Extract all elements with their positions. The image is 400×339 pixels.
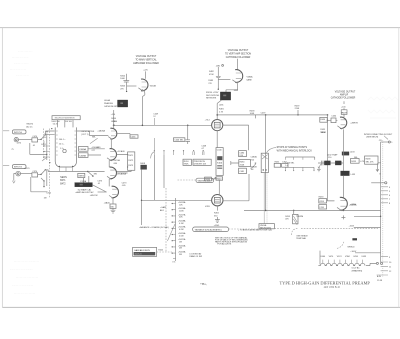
wire screen dropper vertical: [265, 115, 267, 210]
switch SW432 variable box: [193, 227, 229, 232]
svg-text:DIVIDER 10K: DIVIDER 10K: [194, 164, 207, 166]
wire V433 to bus: [342, 209, 344, 212]
wire wafer rods down: [263, 173, 265, 224]
svg-text:1%: 1%: [172, 261, 175, 263]
svg-text:xx x xx xx x xx x xx x: xx x xx xx x xx x xx x xx: [14, 293, 35, 295]
svg-text:+AMPL ADJUST MV: +AMPL ADJUST MV: [75, 191, 94, 194]
svg-text:B472: B472: [60, 184, 66, 186]
wire R433 to tube: [327, 200, 335, 202]
capacitor C470: [32, 136, 38, 147]
svg-text:2-13 +5: 2-13 +5: [135, 254, 143, 256]
node attenuator inner label: [81, 130, 94, 136]
wire V464A to V474: [110, 139, 112, 149]
node +225V feed V464B: [143, 70, 148, 79]
node sel value box: [259, 224, 274, 230]
resistor ladder values: [178, 201, 186, 256]
svg-text:xx x x xx xx x x xx: xx x x xx xx x x xx: [10, 69, 26, 71]
node +225V stub left: [350, 204, 381, 217]
attenuator box A405 tall: [216, 148, 223, 176]
wire L464 feed down to bus: [113, 110, 115, 125]
svg-text:xx x xx x xx x xxx xx x: xx x xx x xx x xxx xx x xx: [16, 277, 38, 279]
node junction dots on bus: [113, 114, 329, 126]
inductor L433 dark top: [342, 152, 355, 156]
page left edge: [1, 28, 3, 308]
ground V384 cathode: [111, 208, 116, 213]
node +100V stub: [350, 251, 380, 253]
resistor R494: [214, 213, 220, 218]
svg-text:CATHODE FOLLOWER: CATHODE FOLLOWER: [226, 56, 251, 59]
wire V464A plate right: [116, 132, 130, 134]
wire dashed link right: [274, 228, 378, 230]
svg-text:AMPLIF: AMPLIF: [340, 94, 349, 97]
resistor R440A lower box: [216, 177, 223, 181]
switch SW405 MILLIVOLTS/DIVISION header: [52, 116, 80, 120]
svg-text:NETWORK: NETWORK: [206, 97, 217, 99]
svg-text:+2BH7B: +2BH7B: [350, 122, 358, 124]
svg-text:x xx xx x x xxx x: x xx xx x x xxx x: [14, 63, 28, 65]
wire grid to tube: [218, 78, 230, 80]
resistor R480 column: [239, 160, 251, 167]
svg-text:STOPS AT NORMAL POSITS: STOPS AT NORMAL POSITS: [277, 146, 308, 149]
svg-text:+BALANCE +COARSE (DC BAL): +BALANCE +COARSE (DC BAL): [139, 226, 169, 229]
svg-text:5M: 5M: [179, 254, 182, 256]
node attenuator left contacts: [41, 128, 52, 163]
resistor R437 plate load: [341, 110, 347, 115]
svg-text:WITH MECHANICAL INTERLOCK: WITH MECHANICAL INTERLOCK: [277, 150, 313, 153]
svg-text:+225V: +225V: [350, 204, 357, 206]
thermistor RT495: [285, 210, 303, 225]
wire V374 to V384: [108, 179, 110, 187]
node bleedthrough faint top-right: [368, 97, 398, 118]
inductor L432 dark: [335, 161, 341, 165]
svg-text:NEON: NEON: [60, 177, 67, 179]
node AC DC GND switch A: [26, 124, 47, 160]
node J481 pin: [216, 65, 224, 68]
ground interconnect arrow: [376, 167, 379, 171]
svg-text:TO VERT AMP SECTION: TO VERT AMP SECTION: [225, 52, 251, 55]
capacitor C480 column: [239, 151, 247, 158]
capacitor C432: [321, 161, 323, 166]
svg-text:xx x xx x xx xx x x xx x: xx x xx x xx xx x x xx xx x xx: [14, 261, 39, 263]
wire V493 cathode right: [223, 174, 249, 201]
svg-text:100K: 100K: [179, 211, 184, 213]
capacitor C466: [130, 133, 138, 138]
node GAIN ADJ label: [160, 206, 167, 212]
svg-text:TO MAIN VERTICAL: TO MAIN VERTICAL: [135, 58, 157, 61]
svg-text:INPUT B: INPUT B: [14, 167, 23, 169]
svg-text:+C370: +C370: [24, 168, 31, 170]
wire V464A top to bus: [113, 125, 115, 128]
svg-text:CATHODE INTERF: CATHODE INTERF: [104, 105, 122, 108]
wire V493 down: [216, 206, 218, 211]
svg-text:SW: SW: [94, 173, 97, 175]
tube V484A cathode follower: [232, 70, 253, 84]
node left labels under L464: [111, 114, 117, 123]
svg-text:(HEATERS): (HEATERS): [352, 270, 363, 273]
wire ladder wiper arm: [167, 224, 175, 241]
node wafer contact labels: [251, 156, 258, 172]
svg-text:+GAIN: +GAIN: [160, 206, 167, 209]
svg-text:6.3-V AC: 6.3-V AC: [352, 267, 361, 270]
svg-text:R474A: R474A: [114, 159, 121, 162]
resistor R461 labels: [274, 162, 280, 168]
wire V384 grid stub: [98, 191, 107, 193]
node GANGED SW label: [178, 177, 217, 182]
node R405A labels: [91, 146, 99, 152]
svg-text:50 20: 50 20: [53, 124, 59, 126]
tube V493 output amp: [205, 195, 223, 208]
node V434 upper label: [321, 132, 327, 134]
resistor R408 dark: [140, 163, 146, 169]
svg-text:1MEG: 1MEG: [78, 176, 84, 178]
ground V493: [214, 217, 220, 227]
svg-text:C405A: C405A: [79, 148, 86, 151]
wire off-page stub B: [3, 165, 9, 167]
node comb mid labels: [285, 163, 295, 168]
node input B grid components labels: [60, 177, 67, 186]
svg-text:MILLIVOLTS/DIVISION: MILLIVOLTS/DIVISION: [55, 118, 75, 120]
wire grid line to V493: [142, 199, 212, 201]
svg-text:990K: 990K: [184, 164, 189, 166]
resistor R434: [320, 117, 327, 134]
tube V464B cathode follower: [138, 79, 156, 91]
svg-text:R480B: R480B: [251, 166, 258, 168]
wire switch B to grid bus: [45, 170, 131, 172]
wire ganged coupling dashed link: [49, 129, 51, 199]
resistor R482 grid column: [208, 67, 220, 90]
tube V474 amplifier: [107, 149, 126, 165]
node bleedthrough faint bottom-left: [10, 261, 39, 295]
node callout stops-at-normal: [266, 146, 312, 153]
wire header drops: [57, 120, 73, 128]
wire variable dashed link: [229, 228, 259, 230]
node grid switch contact: [87, 171, 97, 177]
wire comb feeders: [154, 155, 164, 200]
svg-text:SW470: SW470: [26, 124, 33, 126]
node INPUT A label: [12, 130, 26, 134]
node -150V stub left: [349, 225, 381, 227]
node shielded lead curve: [337, 241, 355, 248]
node atten feed label: [205, 177, 216, 181]
resistor R462 labels: [282, 162, 288, 168]
svg-text:2.7K: 2.7K: [219, 111, 224, 113]
node AW initials: [377, 275, 383, 282]
svg-text:x xx xx x xx xx: x xx xx x xx xx: [16, 75, 29, 77]
wire J370 to C370: [21, 172, 32, 174]
wire output stem: [237, 59, 239, 70]
node +225V stub label: [250, 110, 256, 118]
svg-text:V484A: V484A: [247, 76, 254, 79]
switch SW460 wafer: [261, 153, 268, 172]
node rotary bottom contacts: [59, 166, 73, 167]
svg-text:+MV/CM: +MV/CM: [90, 195, 98, 197]
node temp bal dashed arc: [292, 228, 309, 240]
svg-text:R437: R437: [342, 112, 348, 114]
tube V433A output CF: [337, 197, 357, 211]
transformer T480 shielded peaking coil: [206, 92, 231, 100]
svg-text:0.2M: 0.2M: [179, 229, 184, 231]
node cathode wire cluster labels: [327, 153, 338, 159]
wire grid to tube: [127, 85, 137, 87]
svg-text:A.W.: A.W.: [377, 275, 382, 278]
capacitor C406 trimmer on bus: [174, 138, 185, 142]
potentiometer GAIN ADJ box: [133, 247, 157, 256]
tube V464 pentode: [205, 115, 223, 131]
switch comb right rail upper: [285, 157, 314, 160]
svg-text:+73.4: +73.4: [205, 120, 211, 122]
node comp pointer: [90, 136, 98, 143]
resistor network box R471-R473: [128, 152, 135, 170]
capacitor C405B comp lower: [78, 153, 88, 158]
wire atten box to V493: [218, 180, 220, 194]
wire off-page stub A: [3, 130, 9, 132]
svg-text:VOLTAGE OUTPUT: VOLTAGE OUTPUT: [228, 49, 249, 52]
node C373 label: [97, 180, 103, 185]
svg-text:TYPE D HIGH-GAIN DIFFERENTIAL: TYPE D HIGH-GAIN DIFFERENTIAL PREAMP: [280, 281, 371, 286]
svg-text:THERM: THERM: [296, 216, 303, 218]
inductor L431 dark: [324, 161, 330, 165]
resistor R371 shielded dark: [75, 180, 98, 197]
node adjust arrow: [251, 163, 256, 169]
resistor R370 1MEG: [78, 173, 85, 177]
wire coupling gang dashed short: [43, 129, 45, 161]
svg-text:x x xx x xxx xx x: x x xx x xxx xx x: [18, 51, 32, 53]
switch comb right rail lower: [285, 167, 320, 171]
page top edge: [0, 27, 400, 29]
wire main plate bus left: [114, 124, 212, 126]
capacitor C370: [32, 171, 38, 177]
svg-text:200 100: 200 100: [65, 121, 73, 123]
testpoint TP433 dark: [341, 171, 356, 176]
wire V474 to V374: [108, 160, 110, 167]
capacitor C481 column: [239, 168, 247, 173]
wire atten output to grid: [77, 131, 109, 136]
svg-text:1M: 1M: [179, 242, 182, 244]
wire switch A to attenuator: [45, 131, 54, 135]
node B coupling tiny labels: [44, 192, 52, 199]
resistor R464 grid column: [120, 74, 129, 92]
wire V434 cathode chain: [342, 129, 344, 197]
wire R437 to V434: [343, 101, 345, 117]
svg-text:10:1 +: 10:1 +: [59, 144, 65, 146]
wire comp to V474 grid: [88, 149, 105, 155]
wire interconnect main line: [380, 142, 382, 262]
svg-text:-150V: -150V: [349, 225, 355, 227]
resistor R411 divider: [193, 159, 211, 165]
svg-text:1M: 1M: [44, 197, 47, 199]
svg-text:6AN8: 6AN8: [247, 79, 253, 82]
svg-text:470K: 470K: [209, 74, 214, 76]
node VOLTAGE OUTPUT TO VERT PLATES label: [133, 55, 159, 65]
wire R408 down: [141, 169, 143, 225]
wire V484A plate: [226, 84, 238, 92]
wire rotary bottom feeders: [59, 167, 72, 172]
node INPUT B label: [12, 165, 26, 169]
wire plate vertical to V433: [327, 115, 329, 199]
svg-text:INPUT A: INPUT A: [14, 131, 22, 134]
node lower pin stubs: [377, 257, 393, 275]
svg-text:VARIABLE (UNCALIBRATED): VARIABLE (UNCALIBRATED): [195, 229, 222, 232]
wire R434 to tube grid: [327, 119, 337, 121]
tube V464A input CF: [97, 121, 118, 139]
svg-text:ONE SPACE: ONE SPACE: [296, 234, 308, 237]
node pin 1 stub: [381, 141, 394, 144]
node dark tick: [352, 238, 357, 240]
wire cal to V384 grid: [92, 185, 106, 192]
wire V384 cathode down: [112, 198, 114, 204]
node heaters caption: [352, 267, 363, 273]
svg-text:V464B: V464B: [150, 85, 157, 87]
svg-text:GAIN ADJ R425: GAIN ADJ R425: [134, 249, 151, 252]
node heater labels row: [320, 256, 367, 258]
wire V464B plate down: [142, 89, 145, 125]
svg-text:2.2M: 2.2M: [319, 207, 324, 209]
svg-text:C406 SEL: C406 SEL: [174, 140, 184, 142]
node looking-at note: [189, 252, 202, 258]
svg-text:FOR ADJUSTS: FOR ADJUSTS: [217, 243, 231, 246]
node pin row plate: [371, 174, 387, 184]
page right edge: [398, 28, 400, 308]
svg-text:xx x xxx xx x xx xx: xx x xxx xx x xx xx: [12, 57, 28, 59]
node interconnecting socket label: [364, 134, 393, 142]
node cross mark below V433: [341, 215, 345, 219]
svg-text:B471: B471: [60, 180, 66, 182]
svg-text:0.5M: 0.5M: [179, 235, 184, 237]
ground input B branch: [12, 173, 16, 183]
svg-text:1000 500: 1000 500: [51, 121, 60, 123]
connector J470 input A: [11, 138, 21, 151]
tube V434B cathode follower: [337, 117, 358, 129]
svg-text:LOOKING AT: LOOKING AT: [189, 252, 202, 255]
svg-text:L432 TRAP: L432 TRAP: [327, 153, 338, 156]
switch SW405 rotary outline: [55, 127, 76, 167]
node ladder bottom label: [158, 250, 175, 264]
wire V464 plate line right: [223, 125, 249, 150]
resistor R436: [319, 205, 327, 209]
resistor R410 divider: [183, 159, 191, 165]
svg-text:x xx xx x x xx xx x xx: x xx xx x x xx xx x xx xx: [12, 285, 33, 287]
svg-text:V434: V434: [321, 132, 327, 134]
wire cathode horizontal: [318, 162, 344, 164]
svg-text:2M: 2M: [179, 248, 182, 250]
node bus junctions: [265, 210, 344, 212]
wire R438 corner: [377, 163, 381, 167]
svg-text:VOLTAGE OUTPUT: VOLTAGE OUTPUT: [136, 55, 157, 58]
svg-text:VOLTAGE OUTPUT: VOLTAGE OUTPUT: [335, 91, 356, 94]
inductor L464 peaking dark: [104, 99, 128, 108]
svg-text:12-58: 12-58: [377, 280, 383, 282]
page bottom edge: [2, 306, 400, 308]
capacitor C408: [185, 125, 207, 150]
svg-text:SEL 47K: SEL 47K: [366, 162, 374, 164]
svg-text:JAN 1959 B-10: JAN 1959 B-10: [324, 286, 341, 289]
ground cathode: [317, 169, 321, 171]
wire ganged dashed to gain pot: [157, 188, 172, 252]
capacitor C405 comp upper: [78, 147, 88, 152]
node attenuator column labels: [51, 121, 72, 126]
svg-text:+100V: +100V: [350, 251, 357, 253]
svg-text:SHIELD: SHIELD: [347, 247, 355, 249]
svg-text:250K: 250K: [240, 164, 245, 166]
tube V374 amplifier: [96, 147, 127, 179]
node note paragraph: [215, 236, 249, 245]
svg-text:(CKT 1): (CKT 1): [81, 134, 88, 136]
svg-text:X100: X100: [217, 163, 223, 165]
svg-text:470K: 470K: [319, 201, 324, 203]
wire dark component stem: [84, 176, 89, 183]
node heater filament string: [318, 251, 382, 266]
node AC DC GND switch B: [38, 169, 47, 187]
svg-text:220K: 220K: [295, 108, 300, 110]
resistor R439 box: [351, 157, 365, 163]
capacitor C409 stub: [153, 113, 159, 125]
node left stub to wafer: [231, 161, 239, 165]
svg-text:SQ WAVE CAL: SQ WAVE CAL: [78, 189, 92, 192]
svg-text:(SEE MECH): (SEE MECH): [366, 136, 378, 138]
svg-text:CATHODE FOLLOWER: CATHODE FOLLOWER: [331, 97, 356, 100]
svg-text:+3CAU6: +3CAU6: [117, 150, 126, 153]
svg-text:1M: 1M: [251, 169, 254, 171]
switch SW415 gain ladder: [172, 198, 176, 261]
svg-text:x xx x xxx x xx xx x xx: x xx x xxx x xx xx x xx x x: [10, 269, 33, 271]
svg-text:AC DC: AC DC: [26, 125, 33, 128]
node pin cluster stubs: [381, 187, 391, 205]
wire interconnect dotted boundary: [382, 140, 384, 277]
node VOLTAGE OUTPUT TO AMPLIFIER label: [225, 49, 251, 59]
wire tubes to network box: [116, 155, 131, 174]
wire T480 down to V464 plate: [217, 100, 224, 115]
svg-text:PEAKING: PEAKING: [104, 102, 113, 105]
resistor R438 box: [365, 156, 378, 164]
wire upper supply bus right: [217, 114, 327, 116]
svg-text:100:1 +: 100:1 +: [59, 139, 67, 141]
connector J370 input B: [16, 168, 30, 176]
wire bus into atten box: [216, 131, 218, 148]
svg-text:L464A: L464A: [104, 99, 110, 102]
wire comb feeder stub: [153, 138, 155, 150]
svg-text:+6AU6: +6AU6: [104, 201, 111, 204]
svg-text:REAR OF SW: REAR OF SW: [189, 255, 202, 258]
node V384 right label: [122, 182, 128, 187]
svg-text:+ TO ASSOCIATED AMPLITUDE CAL: + TO ASSOCIATED AMPLITUDE CAL: [238, 229, 273, 232]
svg-text:AMPLIFIER FOLLOWER: AMPLIFIER FOLLOWER: [133, 62, 159, 65]
node arrow to ground: [318, 164, 321, 168]
node bleedthrough faint top-left: [10, 51, 32, 77]
svg-text:C405B: C405B: [79, 155, 86, 157]
svg-text:+3AU6A: +3AU6A: [97, 130, 105, 133]
svg-text:ADJ: ADJ: [160, 209, 164, 212]
switch SW410 gain comb contacts: [151, 150, 204, 158]
wire J470 to C470: [19, 138, 32, 140]
resistor R478 cathode: [110, 204, 116, 209]
svg-text:100K: 100K: [120, 78, 125, 80]
tube V384 amplifier: [104, 186, 119, 204]
node VOLTAGE OUTPUT right CF label: [331, 91, 356, 100]
svg-text:0.1M: 0.1M: [179, 223, 184, 225]
resistor R433: [319, 197, 327, 203]
svg-text:100K: 100K: [250, 113, 255, 115]
svg-text:C480A: C480A: [251, 156, 258, 159]
wire input B gnd position path: [31, 177, 48, 192]
svg-text:TEMP BAL: TEMP BAL: [296, 237, 307, 240]
capacitor C434: [331, 116, 337, 123]
wire lower main bus: [244, 209, 381, 211]
resistor R459 stub: [295, 105, 301, 115]
